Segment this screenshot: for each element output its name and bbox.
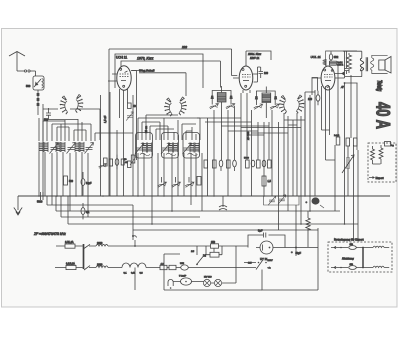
svg-text:500: 500	[69, 180, 74, 183]
brand Telefg	[375, 80, 382, 92]
export mains box	[328, 242, 392, 272]
grid bracket U3	[312, 78, 318, 96]
svg-text:0R2: 0R2	[334, 56, 339, 59]
resistor R5	[244, 158, 250, 169]
export mains box title	[334, 238, 364, 242]
volume pot P1	[342, 146, 354, 196]
trimmer C33	[270, 104, 279, 109]
label 23cm	[144, 126, 148, 133]
resistor R15 500	[64, 176, 74, 185]
loudspeaker LS	[372, 55, 391, 73]
svg-text:UCL 11: UCL 11	[311, 55, 321, 59]
note 222	[181, 45, 187, 49]
resistor R7	[268, 160, 272, 168]
svg-text:100: 100	[264, 72, 269, 75]
electrolytic C29 50uF	[291, 247, 302, 256]
antenna plug P1	[24, 70, 35, 72]
resistor R20	[160, 263, 167, 269]
svg-text:40 A: 40 A	[372, 102, 394, 129]
export core bar	[356, 247, 373, 269]
resistor R25	[124, 159, 131, 168]
vertical link x236	[235, 246, 237, 268]
wave switch S1a	[60, 96, 68, 114]
resistor R2	[204, 160, 208, 168]
grid wires mid	[101, 71, 137, 197]
input box frame	[43, 104, 100, 196]
ground bus	[18, 195, 390, 197]
wire antenna to plug	[17, 70, 24, 72]
cap C21	[81, 203, 90, 219]
bus bias	[61, 196, 200, 217]
mains line N bottom	[55, 267, 256, 269]
wires R18 R19	[206, 246, 248, 255]
trimmer C30	[210, 103, 219, 108]
antenna coupling unit L1	[33, 76, 44, 90]
export coil L13	[373, 246, 389, 247]
wire tube U2 to T2	[243, 67, 261, 93]
resistor R4	[227, 160, 231, 168]
bus HT	[68, 196, 358, 224]
mains voltage switch S6	[244, 259, 273, 270]
svg-text:5000: 5000	[244, 158, 250, 160]
dropper loops L12	[122, 263, 146, 275]
bus AVC	[47, 196, 133, 205]
wave switch S1b	[75, 95, 83, 113]
rectifier loop cap C28 5uF	[248, 229, 285, 248]
resistor R21	[169, 265, 176, 269]
resistor R6	[257, 160, 261, 168]
ground symbol	[14, 196, 22, 215]
export coil L14	[373, 266, 389, 267]
cap C36 40uF	[121, 159, 128, 165]
switch blade top	[84, 244, 90, 248]
electrolytic C27 50uF	[306, 197, 325, 208]
svg-text:100: 100	[308, 98, 313, 101]
trimmer C35	[99, 163, 107, 168]
cap C14	[233, 160, 237, 171]
svg-text:1,5 nF: 1,5 nF	[103, 115, 107, 123]
RF section outer frame	[109, 49, 237, 196]
wire grid left	[39, 118, 95, 141]
mains switch S4 bar	[83, 244, 85, 269]
barretter oval R22	[180, 263, 188, 270]
oscillator damping arcs	[140, 153, 198, 155]
svg-text:500: 500	[26, 84, 31, 88]
EBF11 stage box	[246, 51, 271, 60]
right column wires	[305, 66, 358, 241]
mains line L top	[56, 245, 211, 247]
bus heater	[56, 196, 340, 211]
wire routing left	[43, 120, 133, 134]
cathode cap C18	[308, 91, 320, 105]
dial lamp LA2	[214, 279, 221, 286]
tone network R24	[329, 61, 343, 66]
anode line U1 to T1	[136, 61, 220, 88]
svg-text:MV 610: MV 610	[204, 277, 212, 279]
oscillator coil L5	[143, 143, 152, 153]
export resistor R13	[371, 146, 381, 164]
svg-text:EBF 11: EBF 11	[250, 56, 260, 60]
wires below coils	[39, 152, 88, 217]
label EBF 11	[250, 56, 260, 60]
label ZF vertical	[246, 131, 250, 140]
svg-text:5000: 5000	[37, 201, 43, 204]
cap C15	[251, 160, 255, 167]
bus junction dots	[38, 195, 345, 225]
svg-text:222: 222	[181, 45, 187, 49]
trimmer C32	[254, 104, 263, 109]
cap C20	[81, 172, 92, 195]
IF wires down	[208, 93, 279, 196]
resistor R16	[262, 176, 271, 186]
output tube U3 UCL11	[312, 59, 342, 90]
svg-text:0,1/0,2A: 0,1/0,2A	[66, 262, 75, 265]
svg-text:10µF: 10µF	[86, 182, 92, 185]
bus anode	[133, 205, 318, 230]
AVC routing	[197, 118, 301, 135]
bottom return wires	[262, 228, 318, 290]
IF amp tube U2 EBF11	[233, 51, 258, 90]
wire plug down	[35, 71, 37, 76]
trimmer C23	[172, 177, 181, 187]
label Richtung	[342, 257, 354, 261]
svg-text:350: 350	[211, 241, 216, 244]
screen bypass C6 40pF	[128, 103, 137, 109]
cap C13	[219, 160, 223, 171]
detector wires down	[284, 101, 305, 224]
trimmer C5	[85, 143, 94, 154]
label UCH 11	[116, 56, 127, 60]
trimmer C4	[67, 143, 76, 154]
label UCL 11	[311, 55, 321, 59]
export row2 arrow	[331, 266, 348, 268]
note 1973 Kurz	[137, 57, 154, 61]
output transformer T3	[343, 51, 374, 76]
grid stopper R8	[323, 51, 357, 66]
ground cap C19 5000	[37, 192, 43, 204]
trimmer C7	[126, 112, 133, 121]
UCH11 stage box	[115, 54, 203, 88]
export fuse F3	[385, 142, 395, 148]
choke L10	[96, 242, 108, 246]
triode-hexode U1 UCH11	[108, 61, 140, 90]
dial lamp LA1	[203, 279, 210, 286]
value 500	[44, 119, 49, 122]
trimmer C26	[278, 195, 286, 204]
svg-text:2x0,1: 2x0,1	[334, 135, 340, 137]
svg-text:Export: Export	[376, 176, 384, 180]
svg-text:2000: 2000	[97, 242, 103, 245]
note Weg Schalt	[139, 69, 186, 97]
switch blade bottom	[84, 266, 90, 270]
field coil R17	[306, 211, 310, 247]
label 1,5nF	[103, 115, 107, 123]
trimmer C22	[158, 177, 167, 187]
export option box top	[368, 143, 396, 182]
pilot plug P2	[168, 279, 173, 288]
trimmer C37	[130, 155, 137, 165]
resistor R10	[334, 135, 340, 145]
value 500	[26, 84, 31, 88]
resistor R19 350	[203, 252, 219, 257]
cap C11	[115, 155, 119, 170]
tap switch S5	[191, 246, 203, 265]
export resistor R24	[349, 264, 357, 269]
export row1 arrow	[331, 246, 348, 248]
junction dot	[340, 82, 345, 89]
svg-text:2000: 2000	[97, 264, 103, 267]
label ZF frequencies	[33, 232, 66, 236]
coupling cap C17	[329, 52, 339, 62]
wave trap L9	[219, 196, 227, 210]
svg-text:Af: Af	[340, 85, 344, 89]
fuse F2	[66, 262, 76, 269]
trimmer C25	[268, 196, 276, 205]
detector switch S3a	[279, 96, 287, 114]
oscillator switch S2a	[164, 98, 172, 116]
tone cap C34	[344, 51, 349, 74]
junction to curl	[134, 240, 136, 247]
resistor R26	[197, 177, 201, 186]
export resistor R23	[349, 244, 357, 249]
series capacitor chain C1	[37, 90, 40, 115]
svg-text:Telefg: Telefg	[375, 80, 382, 92]
resistor R3	[213, 160, 217, 168]
oscillator unit frames	[136, 133, 200, 159]
resistor R12	[354, 138, 358, 146]
label Export arrow	[369, 176, 384, 180]
note 2Wel Kurz	[247, 52, 262, 56]
padder C9	[161, 143, 170, 154]
barretter U5	[179, 276, 192, 286]
padder C10	[183, 143, 192, 154]
brand 40 A	[372, 102, 394, 129]
svg-text:5µF: 5µF	[258, 229, 263, 233]
wires below osc coils	[138, 153, 202, 224]
svg-text:1A/1,2A: 1A/1,2A	[65, 241, 74, 244]
svg-text:U 2x6P: U 2x6P	[179, 276, 187, 278]
resistor R11	[346, 138, 350, 146]
oscillator switch S2b	[179, 97, 187, 115]
switch box detail	[264, 196, 300, 248]
trimmer C24	[185, 177, 194, 187]
trimmer C3	[50, 143, 59, 154]
svg-text:50µF: 50µF	[296, 252, 302, 255]
rectifier U4 UY11	[256, 241, 318, 261]
svg-text:ZF =468/473/478 kHz: ZF =468/473/478 kHz	[33, 232, 66, 236]
cap C16	[262, 160, 266, 167]
tube pin wires U1	[120, 71, 137, 197]
antenna A1	[9, 52, 25, 72]
oscillator coil L7	[190, 143, 199, 153]
oscillator coil L6	[169, 143, 178, 153]
coupling cap C12 100pF	[259, 67, 269, 78]
detector switch S3b	[296, 95, 304, 113]
junction curl	[132, 230, 137, 240]
export resistor R14	[379, 145, 383, 164]
capacitor C2 500pF	[46, 108, 51, 119]
IF transformer T2	[255, 87, 277, 119]
svg-text:UCH 11: UCH 11	[116, 56, 127, 60]
fuse F1	[65, 241, 75, 248]
anode wire to OT	[335, 51, 358, 83]
decoupling R1	[104, 158, 113, 166]
heater row wires	[135, 254, 262, 290]
svg-text:220V: 220V	[268, 260, 274, 262]
resistor R18 350	[211, 241, 219, 248]
svg-text:Weg.Schalt: Weg.Schalt	[139, 69, 154, 73]
svg-text:Richtung: Richtung	[342, 257, 354, 261]
feedback resistor R9	[347, 53, 352, 73]
tuning coil L3	[56, 142, 65, 152]
trimmer C31	[226, 103, 235, 108]
svg-text:1973, Kurz: 1973, Kurz	[137, 57, 154, 61]
label MV lamps	[204, 277, 212, 279]
padder C8	[135, 143, 144, 154]
IF transformer T1	[211, 86, 233, 118]
choke L11	[96, 264, 108, 268]
tuning coil L4	[75, 142, 84, 152]
osc routing wires	[138, 115, 200, 140]
svg-text:Netzeingang für Export: Netzeingang für Export	[334, 238, 364, 242]
tuning coil L2	[39, 142, 48, 152]
